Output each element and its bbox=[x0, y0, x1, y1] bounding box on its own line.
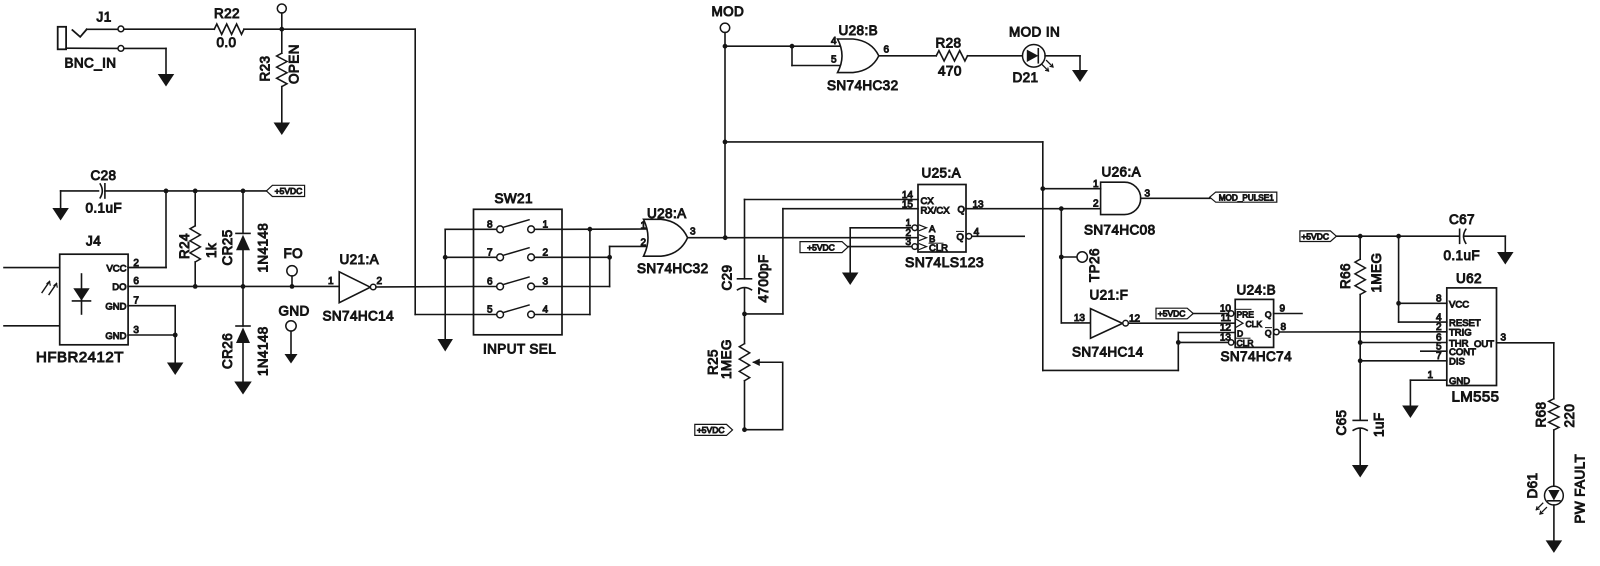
svg-text:0.1uF: 0.1uF bbox=[86, 201, 123, 216]
ground (J4) bbox=[167, 363, 184, 376]
resistor R24 bbox=[190, 191, 200, 287]
svg-text:SN74LS123: SN74LS123 bbox=[905, 254, 984, 270]
svg-text:SW21: SW21 bbox=[495, 191, 533, 206]
wire pin1-pin4 vertical bbox=[589, 229, 591, 314]
svg-text:GND: GND bbox=[1449, 376, 1470, 387]
switch SW21 box bbox=[474, 209, 563, 334]
node loop/U26 in1 bbox=[1040, 186, 1045, 191]
svg-text:C65: C65 bbox=[1334, 410, 1349, 436]
svg-text:3: 3 bbox=[905, 237, 911, 248]
svg-text:BNC_IN: BNC_IN bbox=[65, 56, 117, 71]
label C65 bbox=[1334, 410, 1349, 436]
label U25:A bbox=[922, 166, 962, 181]
label SN74HC32 (U28:A) bbox=[637, 261, 708, 276]
svg-text:SN74HC08: SN74HC08 bbox=[1084, 223, 1155, 238]
node MOD/U28B bbox=[723, 44, 728, 49]
diode CR26 1N4148 bbox=[236, 286, 250, 381]
pin 7 DIS bbox=[1360, 351, 1465, 368]
svg-text:+5VDC: +5VDC bbox=[1301, 231, 1329, 241]
svg-text:CR25: CR25 bbox=[220, 229, 235, 265]
port line J4 upper bbox=[4, 267, 60, 269]
pin 13 Q bbox=[958, 199, 1101, 215]
power flag +5VDC (555 rail) bbox=[1300, 231, 1337, 242]
svg-text:CLR: CLR bbox=[929, 243, 948, 254]
svg-text:DO: DO bbox=[112, 282, 126, 293]
wire SW pin1 right bbox=[562, 228, 649, 230]
switch SW21 pole 5-4 bbox=[474, 305, 563, 318]
wire junction to SW21 drop bbox=[282, 28, 415, 30]
wire +5VDC rail bbox=[166, 190, 266, 192]
pin 1 label U28:A bbox=[640, 220, 646, 231]
svg-text:220: 220 bbox=[1562, 404, 1577, 428]
pin 6 DO of J4 bbox=[112, 276, 139, 293]
wire vertical to SW21 pin5 bbox=[415, 29, 473, 314]
node R66/DIS bbox=[1358, 358, 1363, 363]
svg-text:1N4148: 1N4148 bbox=[256, 326, 271, 376]
pin 3 CLR bbox=[848, 237, 948, 254]
wire CX vertical bbox=[744, 200, 746, 279]
wire R22 to junction bbox=[244, 28, 282, 30]
power flag +5VDC (U24 PRE) bbox=[1156, 308, 1193, 319]
node VCC branch bbox=[1396, 301, 1401, 306]
wire J1 sleeve to ground bbox=[124, 48, 166, 74]
label 220 bbox=[1562, 404, 1577, 428]
wire MOD to U28:B in4 bbox=[725, 45, 844, 47]
svg-text:1: 1 bbox=[640, 220, 646, 231]
pin 4 RESET bbox=[1436, 312, 1481, 329]
wire SW pin4 right bbox=[562, 314, 590, 316]
pin 3 label U28:A bbox=[690, 227, 696, 238]
label SN74HC74 bbox=[1221, 349, 1293, 364]
pin 2 label U28:A bbox=[640, 238, 646, 249]
node R22/R23 junction bbox=[279, 27, 284, 32]
terminal FO bbox=[287, 266, 297, 287]
label R22 bbox=[214, 6, 240, 21]
wire R28 to D21 bbox=[968, 55, 1023, 57]
svg-text:D61: D61 bbox=[1525, 473, 1540, 499]
svg-text:U26:A: U26:A bbox=[1102, 165, 1142, 180]
label OPEN bbox=[287, 44, 302, 84]
svg-text:D21: D21 bbox=[1013, 70, 1039, 85]
svg-text:U25:A: U25:A bbox=[922, 166, 962, 181]
svg-text:8: 8 bbox=[487, 219, 493, 230]
svg-text:6: 6 bbox=[884, 45, 890, 56]
svg-text:7: 7 bbox=[1436, 351, 1442, 362]
label INPUT SEL bbox=[483, 342, 556, 357]
label 1MEG (R66) bbox=[1369, 253, 1384, 293]
wire D21 to ground bbox=[1045, 56, 1080, 70]
pin 14 CX bbox=[902, 190, 934, 207]
switch SW21 pole 8-1 bbox=[474, 219, 563, 232]
node in4/in5 tie bbox=[790, 44, 795, 49]
pin 6 label U28:B bbox=[884, 45, 890, 56]
node GND7/GND3 bbox=[173, 333, 178, 338]
wire OUT down bbox=[1553, 343, 1555, 399]
svg-text:5: 5 bbox=[831, 55, 837, 66]
wire 555 rail bbox=[1336, 235, 1459, 237]
capacitor C28 bbox=[61, 184, 166, 198]
svg-text:PRE: PRE bbox=[1237, 309, 1255, 319]
wire in5 jog bbox=[792, 46, 844, 65]
label R68 bbox=[1534, 402, 1549, 428]
label SN74HC32 (U28:B) bbox=[827, 78, 898, 93]
power flag +5VDC (R25) bbox=[695, 424, 733, 435]
node pin2/pin3 tie bbox=[607, 255, 612, 260]
power flag +5VDC (rail) bbox=[266, 185, 304, 196]
node rail/VCC bbox=[164, 189, 169, 194]
svg-text:15: 15 bbox=[902, 200, 914, 211]
node MOD/horiz bbox=[723, 140, 728, 145]
capacitor C65 bbox=[1353, 420, 1367, 465]
svg-text:8: 8 bbox=[1281, 322, 1287, 333]
svg-text:CLK: CLK bbox=[1246, 319, 1263, 329]
node rail/R24 bbox=[193, 189, 198, 194]
svg-text:FO: FO bbox=[284, 246, 304, 261]
port line J4 lower bbox=[4, 325, 60, 327]
LED D61 bbox=[1536, 486, 1563, 514]
svg-text:C29: C29 bbox=[720, 265, 735, 291]
pin 8 VCC (U62) bbox=[1436, 294, 1469, 311]
svg-text:U28:A: U28:A bbox=[647, 206, 687, 221]
or-gate U28:B bbox=[838, 39, 879, 73]
svg-text:+5VDC: +5VDC bbox=[275, 186, 303, 196]
wire MOD vertical bbox=[724, 46, 726, 238]
resistor R23 bbox=[277, 29, 287, 122]
node pin7/gnd vertical bbox=[443, 255, 448, 260]
pin 15 RX/CX bbox=[902, 200, 950, 217]
or-gate U28:A bbox=[644, 219, 688, 256]
ground (J1 sleeve) bbox=[158, 74, 175, 87]
label U62 bbox=[1456, 271, 1482, 286]
svg-text:MOD_PULSE1: MOD_PULSE1 bbox=[1219, 193, 1275, 202]
pin 2 VCC of J4 bbox=[106, 258, 166, 275]
svg-text:J1: J1 bbox=[97, 10, 112, 25]
label SN74HC14 (U21:F) bbox=[1072, 345, 1144, 360]
svg-text:2: 2 bbox=[1093, 199, 1099, 210]
label C67 bbox=[1449, 212, 1475, 227]
ground (C65) bbox=[1352, 465, 1369, 478]
capacitor C67 bbox=[1460, 229, 1506, 243]
pin 2 B bbox=[905, 228, 935, 245]
LED D21 bbox=[1023, 45, 1053, 72]
label LM555 bbox=[1452, 389, 1500, 406]
svg-text:PW FAULT: PW FAULT bbox=[1573, 454, 1588, 524]
capacitor C29 bbox=[738, 279, 752, 314]
pin 13 label U21:F bbox=[1074, 313, 1086, 324]
pin 10 PRE bbox=[1193, 304, 1254, 320]
wire pin2-pin3 vertical bbox=[609, 246, 611, 286]
ic U62 box bbox=[1447, 288, 1497, 386]
pin 1 A bbox=[850, 218, 936, 235]
label FO bbox=[284, 246, 304, 261]
node C29/R25/RX bbox=[742, 312, 747, 317]
wire C67 to ground bbox=[1504, 236, 1506, 252]
svg-text:1: 1 bbox=[1427, 370, 1433, 381]
svg-text:R23: R23 bbox=[258, 56, 273, 82]
inverter U21:A bbox=[339, 272, 376, 303]
wire VCC branch bbox=[128, 191, 166, 268]
wire MOD horizontal to loop bbox=[725, 141, 1043, 143]
photodiode inside J4 bbox=[73, 274, 91, 314]
svg-text:4: 4 bbox=[543, 305, 549, 316]
wire RX vertical bbox=[745, 209, 783, 314]
wire GND7 down bbox=[174, 306, 176, 363]
svg-text:R68: R68 bbox=[1534, 402, 1549, 428]
svg-text:13: 13 bbox=[1220, 332, 1232, 343]
svg-text:U28:B: U28:B bbox=[839, 23, 879, 38]
node CR25/DO bbox=[241, 284, 246, 289]
svg-text:2: 2 bbox=[640, 238, 646, 249]
net flag MOD_PULSE1 bbox=[1210, 192, 1277, 202]
svg-text:VCC: VCC bbox=[1449, 299, 1469, 310]
svg-text:OPEN: OPEN bbox=[287, 44, 302, 84]
svg-text:U21:A: U21:A bbox=[340, 252, 380, 267]
label 1uF (C65) bbox=[1372, 413, 1387, 437]
resistor R68 bbox=[1549, 399, 1559, 430]
label 470 bbox=[938, 64, 962, 79]
svg-text:3: 3 bbox=[690, 227, 696, 238]
svg-text:INPUT SEL: INPUT SEL bbox=[483, 342, 556, 357]
svg-text:0.0: 0.0 bbox=[217, 35, 237, 50]
node rail/R66 bbox=[1358, 234, 1363, 239]
label 1k bbox=[204, 243, 219, 258]
wire SW pin3 right bbox=[562, 286, 610, 288]
svg-text:RX/CX: RX/CX bbox=[921, 205, 951, 216]
label CR26 bbox=[220, 333, 235, 369]
svg-text:3: 3 bbox=[133, 325, 139, 336]
label 1N4148 (CR26) bbox=[256, 326, 271, 376]
label 1MEG (R25) bbox=[719, 339, 734, 379]
wire loop vertical bbox=[1042, 142, 1044, 371]
resistor R66 bbox=[1355, 236, 1365, 420]
svg-text:1N4148: 1N4148 bbox=[256, 223, 271, 273]
svg-text:HFBR2412T: HFBR2412T bbox=[36, 349, 124, 366]
pin 4 label U28:B bbox=[831, 36, 837, 47]
inverter U21:F bbox=[1091, 309, 1129, 339]
wire U21:F out to CLK bbox=[1128, 322, 1235, 324]
svg-text:1: 1 bbox=[543, 219, 549, 230]
svg-text:TRIG: TRIG bbox=[1449, 328, 1472, 339]
svg-text:CLR: CLR bbox=[1237, 338, 1254, 348]
pin 2 label U21:A bbox=[377, 276, 383, 287]
pin 1 label U21:A bbox=[328, 276, 334, 287]
svg-text:3: 3 bbox=[1501, 333, 1507, 344]
wire CX horizontal to U25 bbox=[745, 199, 919, 201]
node loop/CLR bbox=[1176, 340, 1181, 345]
label SW21 bbox=[495, 191, 533, 206]
svg-text:6: 6 bbox=[487, 277, 493, 288]
ground (SW21) bbox=[437, 339, 453, 352]
svg-text:2: 2 bbox=[133, 258, 139, 269]
svg-text:1: 1 bbox=[328, 276, 334, 287]
pin 5 CONT bbox=[1421, 341, 1476, 358]
node R24/DO bbox=[193, 284, 198, 289]
svg-text:R22: R22 bbox=[214, 6, 240, 21]
pin 3 GND of J4 bbox=[105, 325, 175, 342]
wire R68 to D61 bbox=[1553, 430, 1555, 486]
svg-text:SN74HC14: SN74HC14 bbox=[1072, 345, 1144, 360]
svg-text:13: 13 bbox=[973, 199, 985, 210]
pin 1 label U26 bbox=[1093, 179, 1099, 190]
svg-text:SN74HC32: SN74HC32 bbox=[827, 78, 898, 93]
svg-text:C67: C67 bbox=[1449, 212, 1475, 227]
power flag +5VDC (U25 CLR) bbox=[800, 242, 848, 253]
svg-text:4: 4 bbox=[974, 227, 980, 238]
wire U28:B out bbox=[879, 55, 936, 57]
svg-text:6: 6 bbox=[133, 276, 139, 287]
pin 6 THR bbox=[1360, 333, 1468, 350]
svg-text:13: 13 bbox=[1074, 313, 1086, 324]
svg-text:470: 470 bbox=[938, 64, 962, 79]
svg-text:5: 5 bbox=[487, 305, 493, 316]
label U24:B bbox=[1237, 283, 1277, 298]
svg-text:J4: J4 bbox=[86, 234, 101, 249]
svg-text:MOD IN: MOD IN bbox=[1009, 25, 1060, 40]
svg-text:Q: Q bbox=[1265, 328, 1272, 338]
wire TP26 vertical bbox=[1061, 209, 1090, 323]
ground (GND terminal) bbox=[285, 354, 298, 364]
svg-text:DIS: DIS bbox=[1449, 357, 1465, 368]
test point TP26 bbox=[1061, 252, 1087, 262]
svg-text:U21:F: U21:F bbox=[1090, 288, 1129, 303]
ground (U25 A) bbox=[842, 273, 859, 286]
svg-text:D: D bbox=[1237, 329, 1243, 339]
svg-text:1: 1 bbox=[1093, 179, 1099, 190]
svg-text:U24:B: U24:B bbox=[1237, 283, 1277, 298]
label C28 bbox=[91, 168, 117, 183]
label R24 bbox=[177, 233, 192, 259]
label PW FAULT bbox=[1573, 454, 1588, 524]
pin 2 TRIG bbox=[1436, 322, 1472, 339]
pin 7 GND of J4 bbox=[105, 296, 175, 313]
pin 5 label U28:B bbox=[831, 55, 837, 66]
label J1 bbox=[97, 10, 112, 25]
svg-text:SN74HC74: SN74HC74 bbox=[1221, 349, 1293, 364]
label MOD bbox=[712, 4, 745, 19]
wire J1 tip to R22 bbox=[124, 28, 215, 30]
svg-text:2: 2 bbox=[1436, 322, 1442, 333]
svg-text:+5VDC: +5VDC bbox=[1158, 309, 1186, 319]
svg-text:LM555: LM555 bbox=[1452, 389, 1500, 406]
svg-text:R24: R24 bbox=[177, 233, 192, 259]
svg-text:Q: Q bbox=[1265, 309, 1272, 319]
label 0.0 bbox=[217, 35, 237, 50]
label SN74HC08 bbox=[1084, 223, 1155, 238]
wire loop bottom bbox=[1043, 333, 1179, 371]
wire to U28:A input 2 bbox=[610, 245, 650, 247]
label SN74HC14 (U21:A) bbox=[323, 309, 395, 324]
svg-text:R28: R28 bbox=[936, 36, 962, 51]
label U28:A bbox=[647, 206, 687, 221]
label HFBR2412T bbox=[36, 349, 124, 366]
switch SW21 pole 6-3 bbox=[474, 277, 563, 290]
diode CR25 1N4148 bbox=[236, 191, 250, 287]
svg-text:GND: GND bbox=[105, 302, 126, 313]
svg-text:TP26: TP26 bbox=[1087, 248, 1102, 282]
label 4700pF bbox=[756, 254, 771, 302]
svg-text:+5VDC: +5VDC bbox=[807, 242, 835, 252]
label U26:A bbox=[1102, 165, 1142, 180]
svg-text:1uF: 1uF bbox=[1372, 413, 1387, 437]
terminal above R23 bbox=[277, 4, 286, 29]
label J4 bbox=[86, 234, 101, 249]
label U28:B bbox=[839, 23, 879, 38]
ground (D21) bbox=[1072, 70, 1088, 82]
node TP26 junction bbox=[1059, 255, 1064, 260]
wire DO line bbox=[128, 285, 339, 287]
pin 2 label U26 bbox=[1093, 199, 1099, 210]
svg-text:GND: GND bbox=[105, 331, 126, 342]
label R23 bbox=[258, 56, 273, 82]
light arrows into J4 bbox=[42, 282, 57, 295]
pin 1 GND (U62) bbox=[1410, 370, 1470, 406]
label U21:F bbox=[1090, 288, 1129, 303]
svg-text:7: 7 bbox=[133, 296, 139, 307]
wire VCC/RESET drop bbox=[1399, 236, 1447, 322]
ground (U62) bbox=[1402, 406, 1419, 419]
svg-text:1k: 1k bbox=[204, 243, 219, 258]
label U21:A bbox=[340, 252, 380, 267]
wire U28:A output bbox=[688, 237, 918, 239]
svg-text:VCC: VCC bbox=[106, 264, 126, 275]
svg-text:2: 2 bbox=[377, 276, 383, 287]
terminal MOD bbox=[720, 23, 729, 46]
node Q/TP26 branch bbox=[1059, 206, 1064, 211]
wire D61 to ground bbox=[1553, 505, 1555, 540]
svg-text:Q: Q bbox=[958, 204, 965, 215]
svg-text:4: 4 bbox=[831, 36, 837, 47]
node MOD/B-line bbox=[723, 235, 728, 240]
svg-text:2: 2 bbox=[543, 247, 549, 258]
label R28 bbox=[936, 36, 962, 51]
svg-text:CR26: CR26 bbox=[220, 333, 235, 369]
svg-text:SN74HC32: SN74HC32 bbox=[637, 261, 708, 276]
pin 4 Qbar bbox=[957, 227, 1025, 243]
and-gate U26:A bbox=[1101, 182, 1141, 214]
label 0.1uF (C67) bbox=[1444, 248, 1481, 263]
label D21 bbox=[1013, 70, 1039, 85]
svg-text:9: 9 bbox=[1280, 304, 1286, 315]
svg-text:R66: R66 bbox=[1338, 263, 1353, 289]
svg-text:GND: GND bbox=[279, 304, 310, 319]
svg-text:0.1uF: 0.1uF bbox=[1444, 248, 1481, 263]
wire U26 in1 bbox=[1043, 188, 1101, 190]
wire SW pin8 left bbox=[445, 229, 473, 339]
svg-text:8: 8 bbox=[1436, 294, 1442, 305]
label GND (terminal) bbox=[279, 304, 310, 319]
node rail/VCC drop bbox=[1396, 234, 1401, 239]
ground (C67) bbox=[1497, 252, 1514, 265]
ic U25:A box bbox=[918, 185, 966, 253]
label MOD IN bbox=[1009, 25, 1060, 40]
node pin1/pin4 tie bbox=[588, 227, 593, 232]
wire U26 out bbox=[1141, 197, 1210, 199]
node rail/CR25 bbox=[241, 189, 246, 194]
svg-text:3: 3 bbox=[543, 277, 549, 288]
label D61 bbox=[1525, 473, 1540, 499]
ground (CR26) bbox=[234, 382, 252, 395]
resistor R22 bbox=[214, 24, 244, 34]
resistor R28 bbox=[936, 51, 967, 61]
wire C28 left to ground bbox=[60, 191, 62, 208]
label C29 bbox=[720, 265, 735, 291]
label R25 bbox=[706, 349, 721, 375]
wire SW pin2 right bbox=[562, 256, 610, 258]
label TP26 bbox=[1087, 248, 1102, 282]
label SN74LS123 bbox=[905, 254, 984, 270]
label R66 bbox=[1338, 263, 1353, 289]
svg-text:OUT: OUT bbox=[1474, 339, 1494, 350]
